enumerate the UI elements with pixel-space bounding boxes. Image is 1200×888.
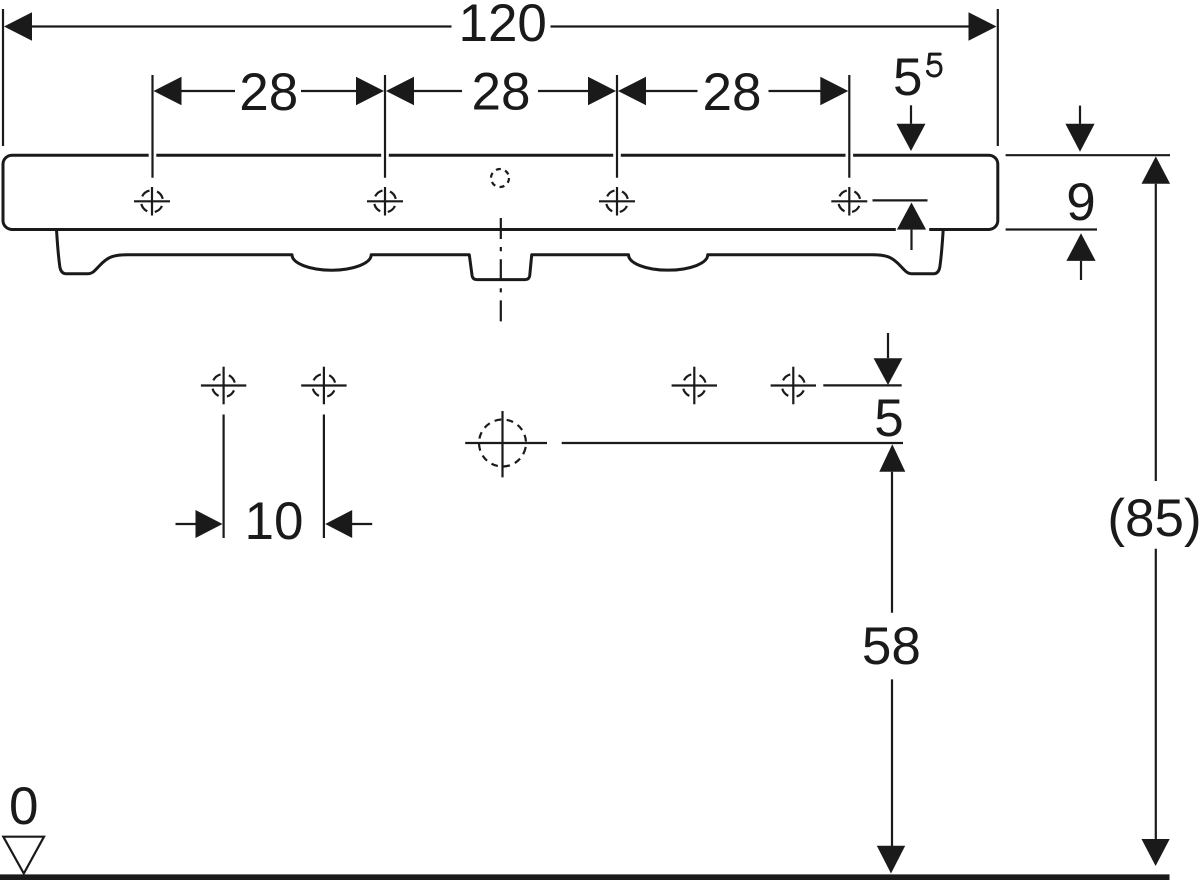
wall hole crosshair left B xyxy=(301,367,346,405)
dimension 9: upper reference line xyxy=(1006,154,1170,156)
dimension 28 #1: dimension line segments xyxy=(181,90,235,92)
floor reference line xyxy=(0,874,1170,880)
wall hole extension line B xyxy=(323,415,325,539)
white halo gaps in basin top edge at extension-line crossings xyxy=(149,153,157,158)
dimension 5.5: down arrowhead xyxy=(897,124,926,151)
svg-text:(85): (85) xyxy=(1107,489,1200,548)
dimension 10: left tail line xyxy=(176,523,197,525)
dimension 10: left arrowhead xyxy=(196,510,223,538)
wall hole crosshair left A xyxy=(201,367,246,405)
dimension (85): top up arrowhead xyxy=(1142,156,1171,183)
wall hole crosshair right B xyxy=(771,367,816,405)
dimension 28 #3: arrowheads xyxy=(618,77,646,105)
basin underside apron with feet and drain boss xyxy=(57,230,944,280)
dimension 9: down arrow stub xyxy=(1079,106,1081,124)
dimension 120: right arrowhead xyxy=(969,12,997,40)
dimension 5.5: up arrowhead inside basin xyxy=(897,203,926,230)
dimension 9: down arrowhead xyxy=(1065,124,1094,152)
svg-text:9: 9 xyxy=(1066,173,1095,232)
dimension 10: right tail line xyxy=(351,523,372,525)
overflow hole (dashed circle) xyxy=(491,169,509,187)
faucet hole crosshair 4 xyxy=(831,187,867,216)
svg-text:28: 28 xyxy=(239,63,298,122)
dimension 58: dimension line upper segment xyxy=(891,472,893,613)
dimension 5: down arrow stub xyxy=(887,333,889,358)
dimension 58: dimension line lower segment xyxy=(891,679,893,846)
faucet hole crosshair 2 xyxy=(367,187,403,216)
dimension 58: bottom down arrowhead xyxy=(877,846,905,874)
dimension 120: dimension line xyxy=(31,25,452,27)
svg-text:5: 5 xyxy=(893,48,922,107)
dimension 5: down arrowhead xyxy=(874,358,903,385)
wall hole crosshair right A xyxy=(672,367,717,405)
svg-text:58: 58 xyxy=(862,617,921,676)
faucet hole crosshair 1 xyxy=(134,187,170,216)
wall hole extension line A xyxy=(223,415,225,539)
svg-text:0: 0 xyxy=(9,777,38,836)
svg-text:5: 5 xyxy=(874,389,903,448)
dimension 28 #3: dimension line segments xyxy=(646,90,698,92)
datum triangle symbol xyxy=(3,837,44,874)
drain position crosshair xyxy=(465,411,547,477)
svg-text:28: 28 xyxy=(703,63,762,122)
dimension 5: reference line segment xyxy=(823,384,901,386)
dimension 28 row: extension lines xyxy=(151,75,153,178)
dimension 9: up arrow stub xyxy=(1080,261,1082,280)
dimension 5.5: upper down-arrow stub line xyxy=(910,105,912,124)
svg-text:120: 120 xyxy=(458,0,546,53)
dimension 58: up arrowhead at reference line xyxy=(879,444,905,472)
drain height reference line xyxy=(562,442,903,444)
dimension 5.5: hole-height reference line xyxy=(873,199,928,201)
faucet hole crosshair 3 xyxy=(599,187,635,216)
dimension 9: up arrowhead xyxy=(1066,233,1095,261)
dimension 9: lower reference line xyxy=(1006,228,1097,230)
dimension 120: right extension line xyxy=(997,9,999,146)
drain centerline (dash-dot) xyxy=(500,218,502,322)
dimension 120: left extension line xyxy=(2,9,4,146)
dimension (85): bottom down arrowhead xyxy=(1142,839,1170,866)
dimension 10: right arrowhead xyxy=(325,510,352,538)
dimension 28 #2: dimension line segments xyxy=(414,90,463,92)
svg-text:28: 28 xyxy=(472,63,531,122)
white halo gap in basin bottom edge at measuring arrow xyxy=(896,227,929,233)
dimension 5.5: lower stub line xyxy=(910,230,912,250)
dimension (85): dimension line lower segment xyxy=(1155,549,1157,839)
dimension (85): dimension line upper segment xyxy=(1155,184,1157,481)
dimension 120: left arrowhead xyxy=(4,12,32,40)
basin outline (front view slab) xyxy=(3,155,998,229)
svg-text:10: 10 xyxy=(245,492,304,551)
dimension 28 #2: arrowheads xyxy=(386,77,414,105)
dimension 28 #1: arrowheads xyxy=(154,77,182,105)
